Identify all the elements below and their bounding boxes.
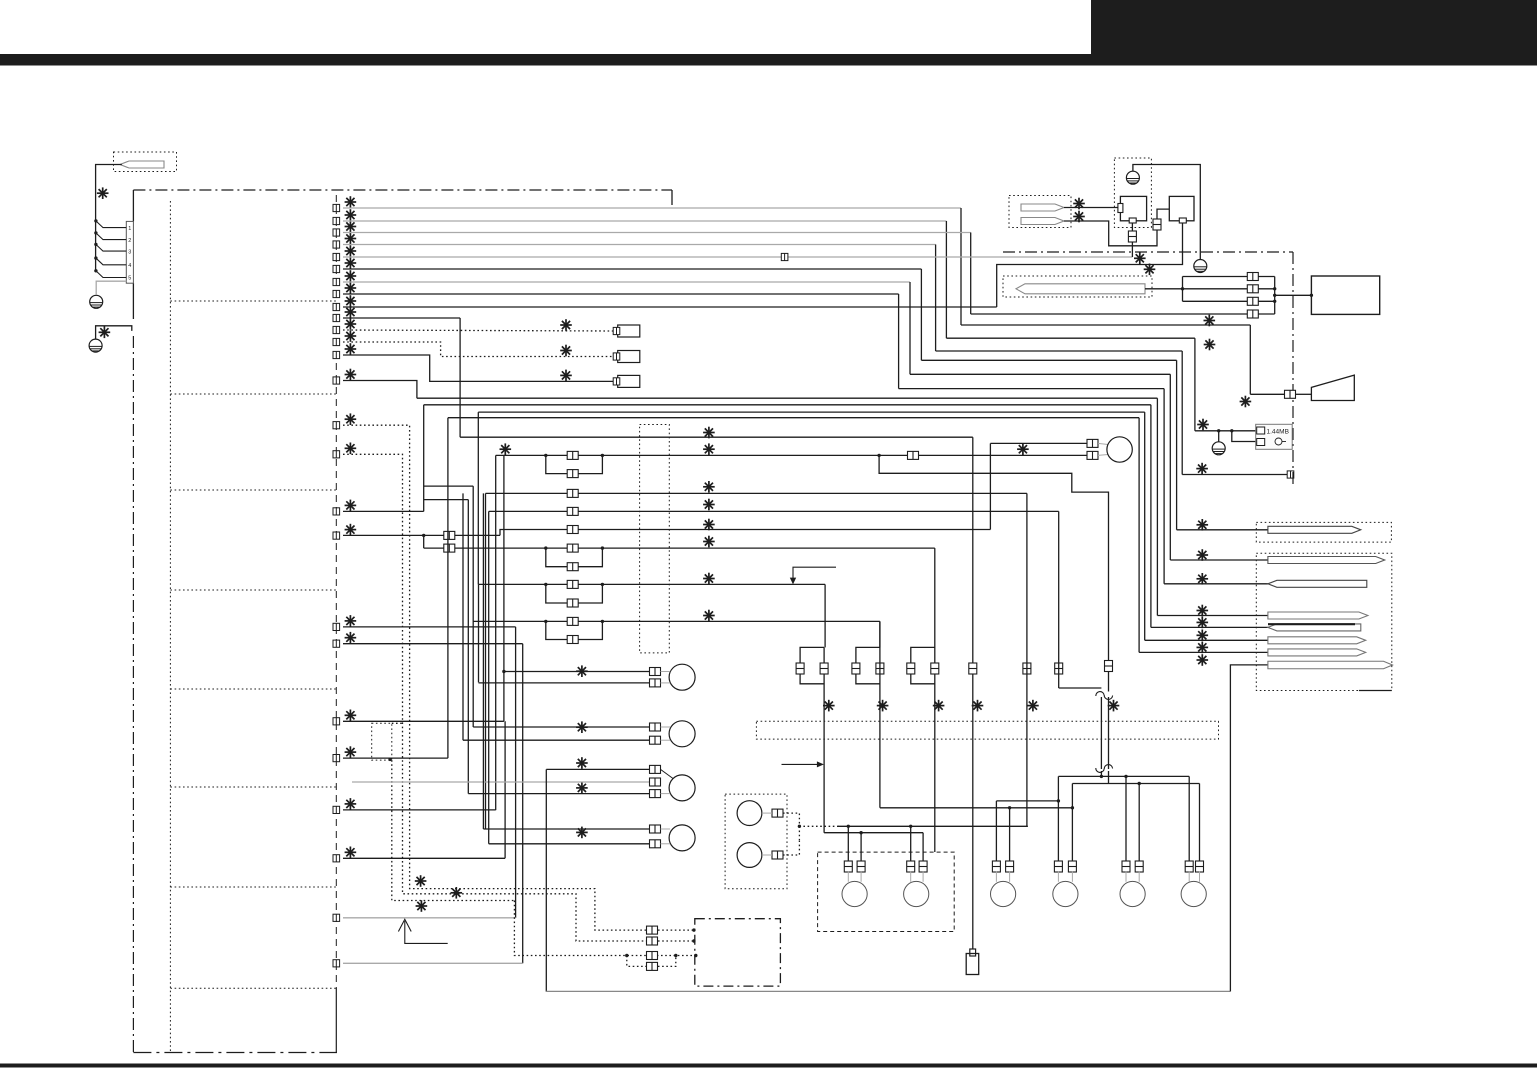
tap dot pin 4 bbox=[94, 256, 97, 259]
lead-in wire pin 4 bbox=[96, 258, 127, 265]
wire color mark row 9 bbox=[345, 295, 357, 307]
wire to plug1 bbox=[1177, 529, 1270, 531]
x1108 connector bbox=[1105, 661, 1113, 672]
section divider 3 bbox=[170, 489, 336, 491]
splice mark bbox=[703, 499, 715, 511]
pin row 644 wire bbox=[343, 643, 523, 645]
vertical x824 down to lamp bus bbox=[823, 647, 825, 832]
in-line connector bbox=[444, 531, 455, 539]
relay A lead connector bbox=[1128, 231, 1136, 242]
x972 connector bbox=[969, 663, 977, 674]
tall dotted box bbox=[640, 425, 670, 653]
link row y500 bbox=[424, 499, 469, 501]
M2 lead 1 bbox=[661, 726, 671, 728]
lamp D connector left bbox=[1185, 861, 1193, 872]
wire row6 vertical bbox=[920, 269, 922, 360]
junction bbox=[1008, 806, 1011, 809]
in-line connector bbox=[444, 544, 455, 552]
relay dashed wire 1 bbox=[783, 813, 839, 826]
wire color mark bbox=[345, 524, 357, 536]
lead-in wire pin 5 bbox=[96, 271, 127, 278]
row621 vertical down segment bbox=[879, 621, 881, 647]
junction bbox=[859, 831, 862, 834]
lamp B wire right bbox=[1071, 784, 1073, 863]
wire row14 bbox=[343, 381, 417, 399]
wire row12 dotted to box S2 bbox=[343, 342, 613, 357]
left connector pin row 2 bbox=[333, 217, 340, 224]
junction bbox=[544, 454, 547, 457]
lamp C wire left bbox=[1125, 776, 1127, 862]
splice mark bbox=[703, 481, 715, 493]
opt row1 connector bbox=[647, 926, 658, 934]
wire to plug3 bbox=[1164, 583, 1270, 585]
junction bbox=[692, 939, 695, 942]
vertical x503.9 bbox=[503, 455, 505, 721]
splice mark bbox=[1240, 396, 1252, 408]
pin row 858 wire bbox=[343, 857, 505, 859]
M1 top wire bbox=[504, 671, 650, 673]
plug2 color mark bbox=[1197, 549, 1209, 561]
plug3 color mark bbox=[1197, 573, 1209, 585]
wire color mark row 8 bbox=[345, 282, 357, 294]
P4 wire bbox=[1145, 288, 1183, 290]
vertical x483.4 bbox=[482, 493, 484, 829]
left connector pin row 1 bbox=[333, 204, 340, 211]
splice mark bbox=[972, 700, 984, 712]
row529 connector bbox=[567, 526, 578, 534]
in-line connector bbox=[567, 489, 578, 497]
lamp C stub right bbox=[1138, 871, 1140, 882]
M3 middle gray wire bbox=[352, 781, 650, 783]
box S1 pin bbox=[613, 327, 620, 334]
bundle wire B4 bbox=[448, 417, 1139, 419]
plug1 bbox=[1268, 526, 1361, 533]
wire row621 bbox=[473, 620, 880, 622]
bundle wire B2 vertical right bbox=[1150, 405, 1152, 628]
wire color mark row 6 bbox=[345, 257, 357, 269]
wire color mark row 3 bbox=[345, 221, 357, 233]
M5 pin 1 bbox=[1087, 439, 1098, 447]
section divider 1 bbox=[170, 300, 336, 302]
wire row6 vertical right bbox=[1176, 360, 1178, 530]
arrowhead up bbox=[398, 919, 411, 931]
plug7 bbox=[1268, 649, 1366, 656]
wire row8 continue bbox=[899, 388, 1165, 390]
junction bbox=[601, 620, 604, 623]
vertical x485.5 bbox=[485, 493, 487, 829]
wire row3 vertical bbox=[970, 233, 972, 315]
splice mark bbox=[703, 536, 715, 548]
lamp1 wire left bbox=[847, 826, 849, 862]
relay R1 bbox=[737, 801, 762, 826]
vertical x473.2 bbox=[472, 486, 474, 727]
main unit outline left edge solid top bbox=[132, 190, 134, 221]
dotted marker box bbox=[372, 723, 392, 760]
relay R2 lead bbox=[762, 854, 772, 856]
x824 loop connector bbox=[796, 663, 804, 674]
long dotted connector box bbox=[756, 721, 1218, 739]
row455 loop connector bbox=[567, 470, 578, 478]
section divider 8 bbox=[170, 987, 336, 989]
plug1 dotted box bbox=[1256, 522, 1391, 542]
wire row7 gray bbox=[343, 281, 910, 283]
lamp 1 connector left bbox=[844, 861, 852, 872]
bus connector y288.8 bbox=[1247, 285, 1258, 293]
splice mark bbox=[576, 665, 588, 677]
lamp A stub left bbox=[995, 871, 997, 882]
tap dot pin 1 bbox=[94, 219, 97, 222]
splice mark bbox=[1134, 252, 1146, 264]
relay A left tab bbox=[1118, 204, 1123, 213]
x935 loop connector bbox=[907, 663, 915, 674]
motor M1 bbox=[669, 664, 695, 690]
left connector pin row 9 bbox=[333, 303, 340, 310]
wire row4 vertical bbox=[935, 245, 937, 352]
svg-text:1.44MB: 1.44MB bbox=[1267, 429, 1289, 436]
junction bbox=[1273, 287, 1276, 290]
wire row4 gray bbox=[343, 244, 936, 246]
wire to plug2 bbox=[1170, 559, 1270, 561]
twist hook top bbox=[1096, 692, 1113, 700]
vertical x1182 bbox=[1181, 351, 1183, 475]
ground G5 bbox=[1212, 442, 1225, 455]
wire color mark bbox=[345, 615, 357, 627]
relay R2 bbox=[737, 843, 762, 868]
dotted service wire B bbox=[343, 454, 646, 941]
svg-text:2: 2 bbox=[128, 238, 131, 244]
relay dashed vertical bbox=[798, 826, 800, 840]
lamp 2 connector right bbox=[919, 861, 927, 872]
pointer arrow down bbox=[793, 567, 836, 579]
in-line connector bbox=[567, 617, 578, 625]
wire color mark row 14 bbox=[345, 369, 357, 381]
x1027 connector bbox=[1023, 663, 1031, 674]
wire row9 to relay B bbox=[997, 221, 1183, 307]
antenna plug dotted box bbox=[114, 152, 177, 172]
horn speaker bbox=[1311, 375, 1354, 400]
lamp B connector right bbox=[1068, 861, 1076, 872]
junction bbox=[502, 670, 505, 673]
ground G1 wire bbox=[96, 281, 126, 294]
plug1 color mark bbox=[1197, 519, 1209, 531]
main unit top edge end tick bbox=[671, 190, 673, 205]
marker box junction bbox=[388, 758, 391, 761]
splice mark bbox=[576, 782, 588, 794]
left connector pin mid 6 bbox=[333, 640, 340, 647]
bus right vertical bbox=[1274, 277, 1276, 315]
boundary dash-dot vertical bbox=[1292, 252, 1294, 488]
speaker wire to connector bbox=[1250, 393, 1284, 395]
arrowhead down bbox=[790, 578, 796, 585]
splice mark bbox=[97, 187, 109, 199]
wire row 529 to motor top bbox=[500, 530, 990, 536]
splice mark bbox=[703, 519, 715, 531]
tap dot pin 3 bbox=[94, 243, 97, 246]
split junction bbox=[422, 534, 425, 537]
wire color mark row 10 bbox=[345, 306, 357, 318]
boundary half connector bbox=[1287, 471, 1294, 478]
M3 bottom wire bbox=[468, 793, 649, 795]
speaker wire vertical bbox=[1249, 325, 1251, 394]
junction bbox=[1310, 294, 1313, 297]
control box bbox=[1311, 276, 1379, 314]
main unit outline left edge dash-dot bbox=[132, 336, 134, 1053]
relay B bottom tab bbox=[1179, 218, 1186, 223]
bus wire 2 bbox=[1183, 288, 1275, 290]
pin row 810 wire bbox=[343, 809, 496, 811]
junction bbox=[692, 928, 695, 931]
splice mark bbox=[500, 443, 512, 455]
left connector pin row 3 bbox=[333, 229, 340, 236]
P3 wire to relay B bbox=[1064, 209, 1169, 246]
wire color mark row 11 bbox=[345, 318, 357, 330]
bundle wire B2 bbox=[424, 404, 1151, 406]
wire color mark row 1 bbox=[345, 196, 357, 208]
left connector pin row 5 bbox=[333, 253, 340, 260]
motor M2 bbox=[669, 721, 695, 747]
plug6 bbox=[1268, 637, 1366, 644]
lamp A connector right bbox=[1006, 861, 1014, 872]
plug8 color mark bbox=[1197, 654, 1209, 666]
vertical x447.9 bbox=[447, 418, 449, 758]
in-line connector bbox=[567, 580, 578, 588]
lamp B stub right bbox=[1071, 871, 1073, 882]
antenna lead wire bbox=[96, 165, 122, 271]
bundle wire B1 vertical right bbox=[1156, 398, 1158, 615]
switch cap bbox=[970, 949, 976, 956]
floppy pin 1 bbox=[1257, 427, 1265, 434]
lamp 1 bulb bbox=[842, 881, 867, 906]
row535/548 split vertical bbox=[423, 535, 425, 548]
bundle wire B3 vertical right bbox=[1144, 412, 1146, 640]
junction bbox=[625, 954, 628, 957]
long plug P4 bbox=[1016, 284, 1145, 294]
arrowhead right bbox=[817, 761, 824, 767]
marker box dotted link bbox=[392, 722, 403, 724]
switch feed vertical bbox=[972, 437, 974, 949]
wire row7 vertical right bbox=[1169, 374, 1171, 560]
vertical x505.1 bbox=[504, 721, 506, 858]
bundle wire B3 bbox=[478, 411, 1144, 413]
wire row2 continue bbox=[946, 337, 1195, 339]
splice mark bbox=[1027, 700, 1039, 712]
wire row7 vertical bbox=[909, 282, 911, 374]
row584 vertical down bbox=[824, 584, 826, 647]
left connector pin row 12 bbox=[333, 338, 340, 345]
bus output wire bbox=[1275, 294, 1312, 296]
pair tail left bbox=[1100, 771, 1102, 776]
svg-text:4: 4 bbox=[128, 263, 131, 269]
splice mark bbox=[933, 700, 945, 712]
ground G2 wire bbox=[96, 326, 132, 339]
left connector pin row 11 bbox=[333, 326, 340, 333]
M2 pin 1 bbox=[650, 723, 661, 731]
lamp1 wire right bbox=[860, 833, 862, 862]
wire row 511 long bbox=[489, 510, 1059, 512]
motor top feed vertical bbox=[989, 443, 991, 529]
opt row2 connector bbox=[647, 937, 658, 945]
left connector pin mid 1 bbox=[333, 422, 340, 429]
splice mark bbox=[1197, 419, 1209, 431]
pin row 963 gray wire bbox=[343, 962, 523, 964]
relay R1 lead bbox=[762, 812, 772, 814]
wire row10 vertical bbox=[459, 318, 461, 437]
M1 lead 2 bbox=[661, 682, 671, 684]
row548 vertical down bbox=[934, 548, 936, 852]
P2 wire to relay A bbox=[1064, 207, 1118, 209]
lamp A stub right bbox=[1009, 871, 1011, 882]
M2 lead 2 bbox=[661, 739, 671, 741]
floppy circle detail bbox=[1275, 438, 1282, 445]
pin row 918 gray wire bbox=[343, 917, 516, 919]
wire row11 dotted to box S1 bbox=[343, 330, 613, 331]
x880 loop connector bbox=[852, 663, 860, 674]
splice mark bbox=[576, 827, 588, 839]
splice mark bbox=[877, 700, 889, 712]
plug P2 bbox=[1021, 204, 1064, 211]
junction bbox=[847, 825, 850, 828]
bus wire 1 bbox=[1183, 276, 1275, 278]
vertical x478.3 upper bbox=[477, 412, 479, 584]
duct color mark bbox=[416, 900, 428, 912]
wire row435 to switch bbox=[460, 436, 973, 438]
ground G4 bbox=[1194, 260, 1207, 273]
section divider 4 bbox=[170, 589, 336, 591]
splice mark bbox=[576, 757, 588, 769]
left connector pin row 7 bbox=[333, 278, 340, 285]
row511 connector bbox=[567, 507, 578, 515]
wire row13 to box S3 bbox=[343, 355, 613, 381]
M1 pin 1 bbox=[650, 668, 661, 676]
wire row8 bbox=[343, 293, 899, 295]
wire color mark bbox=[345, 413, 357, 425]
vertical x515.6 bbox=[515, 627, 517, 918]
lamp C wire right bbox=[1138, 784, 1140, 863]
x1058 connector bbox=[1055, 663, 1063, 674]
in-line connector bbox=[567, 451, 578, 459]
wire to plug7 bbox=[1139, 651, 1270, 653]
section divider 7 bbox=[170, 886, 336, 888]
left connector pin mid 2 bbox=[333, 451, 340, 458]
section divider 6 bbox=[170, 786, 336, 788]
junction bbox=[909, 825, 912, 828]
wire to plug4 bbox=[1157, 615, 1270, 617]
x824 bypass loop bbox=[800, 647, 824, 683]
relay R1 pin bbox=[772, 809, 783, 817]
wire color mark row 2 bbox=[345, 209, 357, 221]
plug6 color mark bbox=[1197, 630, 1209, 642]
M5 pin 2 bbox=[1087, 451, 1098, 459]
lamp B connector left bbox=[1054, 861, 1062, 872]
speaker lead bbox=[1296, 393, 1311, 395]
wire color mark bbox=[345, 710, 357, 722]
junction bbox=[544, 583, 547, 586]
splice mark bbox=[1144, 264, 1156, 276]
x935 bypass loop bbox=[911, 647, 935, 683]
M4 pin 1 bbox=[650, 825, 661, 833]
lamp A wire right bbox=[1009, 808, 1011, 862]
wire to dash-dot boundary bbox=[936, 350, 1183, 352]
opt row3 dotted bbox=[514, 901, 695, 956]
splice mark near S3 bbox=[560, 370, 572, 382]
plug3 bbox=[1268, 580, 1367, 587]
left connector pin mid 8 bbox=[333, 755, 340, 762]
splice mark bbox=[703, 610, 715, 622]
junction bbox=[1273, 294, 1276, 297]
left connector pin mid 7 bbox=[333, 718, 340, 725]
ground G5 stem bbox=[1218, 431, 1220, 442]
row621 vertical down bbox=[879, 621, 881, 807]
junction bbox=[1124, 775, 1127, 778]
relay A bottom tab bbox=[1129, 218, 1136, 223]
small box S2 bbox=[618, 351, 640, 363]
vertical x468.3 bbox=[467, 500, 469, 794]
M4 lead 1 bbox=[661, 828, 671, 830]
left connector pin row 13 bbox=[333, 351, 340, 358]
lead-in wire pin 1 bbox=[96, 221, 127, 228]
lamp C bulb bbox=[1120, 881, 1145, 906]
pointer arrow right bbox=[782, 763, 820, 765]
M4 bottom wire bbox=[489, 843, 650, 845]
junction bbox=[1071, 806, 1074, 809]
pin row 627 wire bbox=[343, 626, 516, 628]
M2 bottom wire bbox=[463, 739, 650, 741]
junction bbox=[1100, 775, 1103, 778]
twisted pair left bbox=[1100, 697, 1102, 769]
P3 in-line connector bbox=[1153, 219, 1161, 230]
left connector pin mid 5 bbox=[333, 623, 340, 630]
splice mark bbox=[703, 443, 715, 455]
svg-text:1: 1 bbox=[128, 226, 131, 232]
wire color mark bbox=[345, 746, 357, 758]
junction bbox=[601, 454, 604, 457]
wire row493 bbox=[486, 492, 1027, 494]
plug4 color mark bbox=[1197, 605, 1209, 617]
wire color mark row 12 bbox=[345, 330, 357, 342]
big routing wire bottom bbox=[546, 990, 1231, 992]
opt row2 stub bbox=[658, 940, 695, 942]
bundle wire B4 vertical right bbox=[1138, 418, 1140, 653]
M3 pin 1 bbox=[650, 765, 661, 773]
wire row7 continue bbox=[910, 373, 1170, 375]
left connector pin row 14 bbox=[333, 377, 340, 384]
speaker wire horizontal bbox=[961, 324, 1250, 326]
small box S1 bbox=[618, 325, 640, 337]
junction bbox=[674, 954, 677, 957]
main unit outline bottom edge bbox=[133, 1052, 337, 1054]
lamp 2 connector left bbox=[907, 861, 915, 872]
M3 lead 1 bbox=[661, 769, 674, 778]
small box S3 bbox=[618, 375, 640, 387]
box S3 pin bbox=[613, 378, 620, 385]
wire row10 bbox=[343, 317, 460, 319]
M4 lead 2 bbox=[661, 843, 671, 845]
wire color mark bbox=[345, 798, 357, 810]
motor M5 bbox=[1107, 437, 1132, 462]
splice mark bbox=[1196, 463, 1208, 475]
vertical x423.7 bbox=[423, 405, 425, 512]
speaker connector bbox=[1285, 390, 1296, 398]
wire row3 gray bbox=[343, 232, 971, 234]
wire row6 bbox=[343, 268, 921, 270]
tap dot pin 5 bbox=[94, 269, 97, 272]
junction bbox=[544, 546, 547, 549]
vertical x463 bbox=[462, 493, 464, 740]
M5 lead 1 bbox=[1098, 443, 1108, 444]
row5 in-line connector bbox=[781, 253, 788, 260]
splice mark bbox=[1204, 315, 1216, 327]
relay A dotted box bbox=[1114, 158, 1151, 228]
